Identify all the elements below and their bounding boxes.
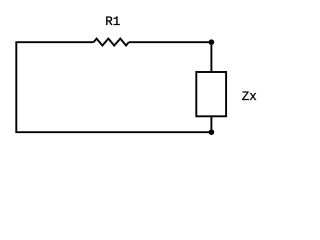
svg-text:R1: R1 bbox=[105, 15, 120, 29]
wire: top-right segment from resistor to node bbox=[129, 41, 212, 43]
wire: left vertical side bbox=[15, 42, 17, 132]
impedance Zx (box) bbox=[196, 72, 226, 116]
svg-text:Zx: Zx bbox=[242, 90, 257, 104]
wire: top-left segment to resistor bbox=[15, 41, 93, 43]
wire: bottom horizontal bbox=[15, 131, 211, 133]
wire: box bottom down to node bbox=[210, 116, 212, 132]
node: bottom junction dot bbox=[209, 129, 215, 135]
node: top junction dot bbox=[209, 39, 215, 45]
resistor R1 bbox=[94, 39, 129, 46]
wire: node down to box top bbox=[210, 42, 212, 72]
